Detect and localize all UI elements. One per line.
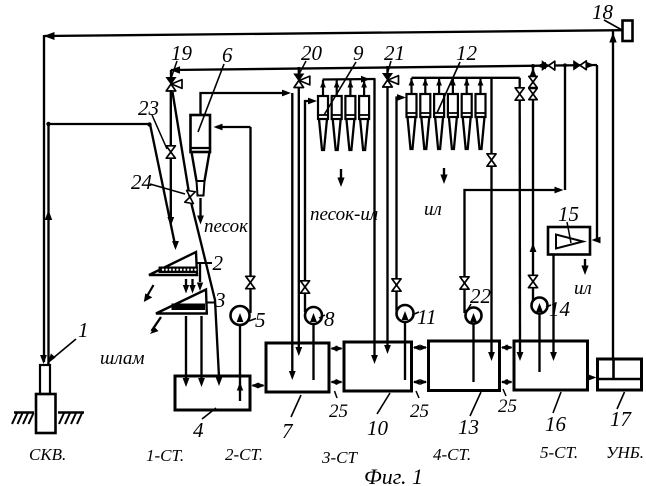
valve 24 [185,190,196,203]
svg-text:22: 22 [470,284,492,308]
wire bank 9 overflow manifold [323,78,376,81]
wire top return line from UNB tank to well [44,30,622,36]
wire pump 8 suction [312,324,314,380]
wire riser pump22 line to header [564,65,566,190]
svg-text:11: 11 [417,305,436,329]
wire feed slant to screen 2 [150,124,176,247]
well 1 (SKV) casing [40,365,50,394]
tank 17 UNB [598,359,642,390]
svg-text:10: 10 [367,416,389,440]
wire riser from tank 17 to top line [612,31,614,359]
wire pump 14 discharge riser to header [532,67,534,303]
tank 7 stage 2 [266,343,329,392]
wire screen2 underflow arrows [185,279,187,286]
transfer arrows tank10-tank13 [414,346,426,348]
wire manifold branch to tank 13 [490,78,492,154]
wire screen 3 underflow lines [185,316,187,378]
svg-text:23: 23 [138,96,159,120]
wire pesok-il arrow [340,169,342,178]
svg-text:1-СТ.: 1-СТ. [146,446,184,465]
ground hatching left [14,411,34,413]
svg-text:19: 19 [171,41,193,65]
pump 5 [231,306,250,325]
wire well outflow header [48,123,151,125]
label 2 [197,262,212,264]
valve on pump 5 riser [246,276,255,288]
hydrocyclone bank 9 [318,80,369,150]
svg-text:3: 3 [214,288,226,312]
svg-text:песок: песок [204,216,249,237]
svg-text:15: 15 [558,202,579,226]
svg-text:14: 14 [549,297,571,321]
tank 10 stage 3 [344,342,412,391]
svg-text:5-СТ.: 5-СТ. [540,443,578,462]
valve on pump 8 riser [300,281,309,293]
wire bypass slant line to tank 4 [173,92,220,377]
svg-text:12: 12 [456,41,478,65]
svg-text:7: 7 [282,419,294,443]
valve 23 [166,146,175,158]
valve above pump 14 [528,275,537,287]
valve on pump14 riser [529,88,537,99]
svg-text:6: 6 [222,43,233,67]
tank 16 stage 5 [514,341,588,390]
wire transfer tank16 to tank17 [589,376,593,378]
svg-text:18: 18 [592,0,614,24]
svg-text:16: 16 [545,412,567,436]
svg-text:шлам: шлам [100,348,145,369]
wire pump 5 suction [239,325,241,401]
pump 8 [305,307,322,324]
pump 14 [532,298,548,314]
wire valve 21 line into tank 10 [386,86,388,345]
valve 22 [460,277,469,289]
svg-text:25: 25 [329,401,348,422]
wire pump 8 discharge riser / bank 9 feed [305,101,313,312]
svg-text:2-СТ.: 2-СТ. [225,445,263,464]
svg-text:8: 8 [324,307,335,331]
svg-text:24: 24 [131,170,153,194]
valve on pump 11 riser [392,279,401,291]
wire centrifuge solids arrow [584,259,586,266]
wire pump 22 discharge to header riser [465,190,561,313]
wire sand discharge arrow [199,198,201,216]
svg-text:4: 4 [193,418,204,442]
svg-text:ил: ил [424,199,442,220]
wire left downcomer to well [43,35,45,362]
svg-text:УНБ.: УНБ. [606,443,644,462]
wire pump 11 suction [404,322,406,380]
ground hatching right [58,411,84,413]
wire cyclone 6 overflow to tank 7 [201,93,288,115]
svg-text:4-СТ.: 4-СТ. [433,445,471,464]
svg-text:9: 9 [353,41,364,65]
wire well outflow riser [47,124,49,365]
wire transfer tank4-tank7 [253,384,264,386]
wire manifold branch to tank 16 [519,78,521,88]
check valve on pump14 riser [529,76,537,87]
wire pump 14 suction [538,314,540,373]
wire centrifuge liquid to tank 16 [552,255,554,353]
svg-text:3-СТ: 3-СТ [321,448,359,467]
wire screen 2 oversize to screen 3 [199,264,201,282]
hydrocyclone 6 [191,115,211,152]
tank 13 stage 4 [429,341,500,391]
svg-text:5: 5 [255,308,266,332]
hydrocyclone bank 12 [407,78,486,149]
svg-text:17: 17 [610,407,633,431]
valve on header right of riser [574,61,587,70]
svg-text:Фиг. 1: Фиг. 1 [364,464,423,486]
svg-text:1: 1 [78,318,89,342]
svg-text:25: 25 [410,401,429,422]
valve 20 three-way [298,67,300,75]
wire cyclone 6 feed from pump 5 [216,126,251,128]
wire bank 12 overflow manifold [412,77,520,79]
svg-text:13: 13 [458,415,479,439]
wire header to centrifuge 15 [594,65,597,240]
transfer arrows tank13-tank16 [502,346,512,348]
vibrating screen 3 [156,290,207,314]
junction dot [563,63,567,67]
pump at tank 13 [466,308,482,324]
svg-text:песок-ил: песок-ил [310,204,378,225]
wire pump 5 discharge riser [249,127,251,313]
svg-text:21: 21 [384,41,405,65]
valve on header left of riser [542,61,555,70]
wire il arrow [443,168,445,175]
svg-text:25: 25 [498,396,517,417]
transfer arrows tank7-tank10 [332,347,342,349]
wire distribution header [171,65,597,70]
vibrating screen 2 [149,252,197,275]
pump 11 [397,305,414,322]
tank 4 stage 1 [175,376,250,410]
wire pump 22 suction [472,324,474,383]
centrifuge 15 [548,227,590,255]
wire pump 11 discharge riser / bank 12 feed [397,98,403,312]
svg-text:ил: ил [574,278,592,299]
label 3 [207,302,215,304]
svg-text:20: 20 [301,41,323,65]
wire valve20 line into tank 7 [298,87,300,348]
svg-text:2: 2 [213,251,224,275]
valve on branch to tank 13 [487,154,496,166]
valve 19 three-way [170,70,172,78]
device 18 [623,21,633,42]
valve on branch to tank 16 [515,88,524,100]
wire bypass pipe to screens [170,90,172,218]
valve 21 three-way [386,66,388,74]
svg-text:СКВ.: СКВ. [29,445,66,464]
wire slam discharge arrows [144,285,154,302]
